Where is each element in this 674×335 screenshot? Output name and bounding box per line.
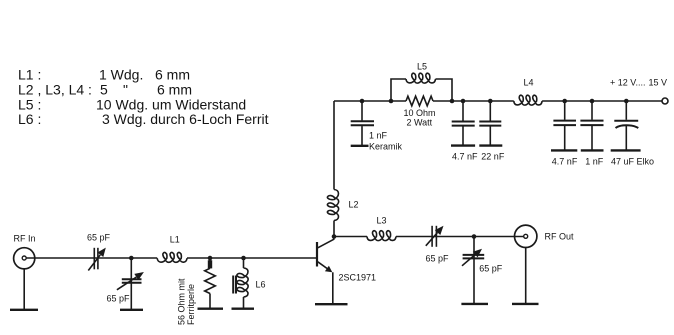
wire: node to L6	[243, 258, 245, 268]
svg-text:1 Wdg.: 1 Wdg.	[99, 67, 143, 83]
svg-text:RF Out: RF Out	[545, 232, 575, 242]
svg-text:65 pF: 65 pF	[479, 264, 503, 274]
capacitor C1 1nF Keramik	[351, 101, 374, 146]
node: junction R2	[208, 256, 213, 261]
capacitor C9 65 pF trimmer (series output)	[426, 226, 444, 247]
node: junction C3	[488, 99, 493, 104]
transistor Q1 emitter lead with arrow	[318, 262, 333, 304]
capacitor C3 22 nF	[479, 101, 502, 146]
svg-text:65 pF: 65 pF	[87, 233, 111, 243]
inductor L3	[367, 231, 396, 241]
wire: rail between R1 and L4	[433, 100, 514, 102]
connector RF In	[14, 248, 35, 269]
inductor L4	[514, 95, 542, 105]
svg-text:L6: L6	[256, 280, 266, 290]
svg-text:1 nF: 1 nF	[585, 157, 604, 167]
transistor Q1 2SC1971 base bar	[316, 242, 318, 267]
capacitor C10 65 pF trimmer (shunt output)	[462, 237, 484, 304]
supply terminal +12V	[662, 98, 668, 104]
capacitor C6 47 uF Elko (electrolytic)	[611, 101, 641, 150]
wire: L3 to RF Out	[396, 236, 524, 238]
svg-text:L2 , L3, L4 :: L2 , L3, L4 :	[18, 82, 92, 98]
svg-text:1 nF: 1 nF	[369, 131, 388, 141]
wire: collector feed from rail down to L2	[333, 101, 335, 190]
node: junction C4	[562, 99, 567, 104]
capacitor C2 4.7 nF	[451, 101, 475, 146]
svg-text:Ferritperle: Ferritperle	[186, 284, 196, 325]
svg-text:": "	[123, 82, 128, 98]
resistor R1 10 Ohm 2 Watt	[406, 96, 433, 106]
svg-text:L1 :: L1 :	[18, 67, 41, 83]
node: junction C6	[624, 99, 629, 104]
node: junction C1	[360, 99, 365, 104]
svg-text:L3: L3	[377, 216, 387, 226]
label 10 Ohm 2 Watt	[404, 108, 436, 127]
legend line L6	[18, 111, 269, 127]
svg-text:65 pF: 65 pF	[107, 293, 131, 303]
node: junction C5	[590, 99, 595, 104]
svg-text:L1: L1	[170, 235, 180, 245]
svg-text:56 Ohm mit: 56 Ohm mit	[177, 278, 187, 325]
wire: collector node to L3	[334, 236, 367, 238]
capacitor C8 65 pF trimmer (shunt input)	[117, 258, 144, 309]
svg-text:+ 12 V: + 12 V	[610, 78, 636, 88]
L6 core bars	[233, 276, 236, 294]
ground (C10)	[461, 303, 488, 305]
svg-text:L2: L2	[349, 199, 359, 209]
svg-text:6 mm: 6 mm	[155, 67, 190, 83]
svg-text:....: ....	[636, 78, 646, 88]
svg-text:4.7 nF: 4.7 nF	[552, 157, 578, 167]
inductor L2	[327, 190, 338, 221]
resistor R2 56 Ohm mit Ferritperle	[205, 268, 216, 293]
ground (R2)	[198, 308, 224, 310]
connector RF Out	[515, 225, 537, 247]
ground (RF Out)	[512, 303, 539, 305]
wire: rail from L4 to supply terminal	[542, 100, 662, 102]
ground (L6)	[232, 308, 255, 310]
node: input junction	[129, 256, 134, 261]
legend line L5	[18, 97, 246, 113]
node: junction L5 right	[450, 99, 455, 104]
capacitor C7 65 pF trimmer (series input)	[88, 248, 106, 271]
ground (Q1 emitter)	[315, 303, 348, 305]
svg-text:65 pF: 65 pF	[426, 253, 450, 263]
transistor Q1 collector lead	[318, 237, 334, 248]
wire: R2 to ground	[209, 294, 211, 309]
ground (RF In)	[10, 309, 38, 311]
svg-text:L5: L5	[417, 62, 427, 72]
svg-text:6 mm: 6 mm	[157, 82, 192, 98]
node: junction C2	[461, 99, 466, 104]
ferrite bead on R2 lead	[208, 258, 212, 268]
svg-text:Keramik: Keramik	[369, 142, 403, 152]
svg-text:15 V: 15 V	[649, 78, 668, 88]
node: junction L5 left	[389, 99, 394, 104]
inductor L6	[237, 268, 248, 297]
inductor L5	[406, 73, 436, 83]
inductor L1	[157, 252, 187, 262]
label 1 nF Keramik	[369, 131, 403, 152]
wire: L6 to ground	[243, 297, 245, 308]
wire: L5 bypass loop	[391, 79, 452, 101]
svg-text:47 uF Elko: 47 uF Elko	[611, 157, 654, 167]
wire: RF In to C7	[26, 257, 157, 259]
wire: power rail left segment	[334, 100, 406, 102]
node: junction L6	[241, 256, 246, 261]
svg-text:3 Wdg. durch 6-Loch Ferrit: 3 Wdg. durch 6-Loch Ferrit	[102, 111, 269, 127]
wire: RF In ground lead	[23, 269, 25, 309]
wire: L1 to transistor base	[187, 257, 316, 259]
capacitor C4 4.7 nF	[551, 101, 577, 150]
svg-text:2SC1971: 2SC1971	[339, 272, 377, 282]
node: collector junction	[332, 234, 337, 239]
svg-text:2 Watt: 2 Watt	[407, 117, 433, 127]
wire: RF Out ground lead	[525, 248, 527, 304]
ground (C8)	[120, 309, 143, 311]
label 56 Ohm mit Ferritperle (vertical)	[177, 278, 197, 325]
svg-text:L4: L4	[524, 78, 534, 88]
svg-text:5: 5	[100, 82, 108, 98]
label +12V...15V	[610, 78, 667, 88]
node: output junction	[472, 234, 477, 239]
svg-text:RF In: RF In	[14, 233, 36, 243]
svg-text:L6 :: L6 :	[18, 111, 41, 127]
svg-text:22 nF: 22 nF	[481, 152, 505, 162]
capacitor C5 1 nF	[580, 101, 603, 150]
legend line L1	[18, 67, 190, 83]
svg-text:4.7 nF: 4.7 nF	[452, 152, 478, 162]
wire: L2 to collector node	[333, 221, 335, 237]
legend line L2 L3 L4	[18, 82, 192, 98]
